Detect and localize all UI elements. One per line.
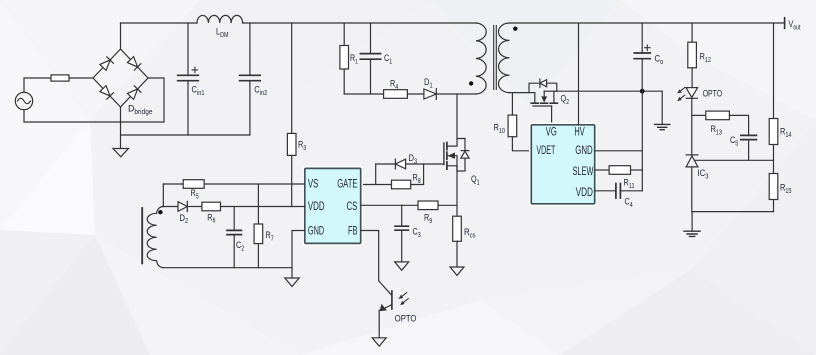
resistor R7 (254, 184, 263, 268)
bridge rectifier D_bridge (93, 49, 148, 107)
resistor R10 (508, 115, 531, 151)
transformer aux winding (147, 207, 163, 268)
fuse F1 (51, 75, 69, 81)
resistor R4 (384, 90, 408, 99)
wire D3 branch left (375, 164, 377, 185)
wire bottom node (692, 211, 774, 213)
shunt regulator IC3 (686, 155, 698, 212)
wire VS line left (163, 183, 183, 185)
node secondary dot (513, 27, 517, 31)
resistor R6 (202, 202, 221, 211)
svg-text:HV: HV (574, 127, 585, 139)
wire output gnd rail (557, 90, 662, 92)
wire C5 to ref line (748, 140, 750, 161)
wire R13 branch (692, 114, 706, 116)
diode D2 (178, 201, 187, 211)
capacitor C_o (634, 23, 650, 91)
wire VDD pin (U2) (595, 190, 616, 192)
wire R4 to D1 (407, 93, 424, 95)
wire Q1 source down (456, 166, 458, 216)
wire C4 to bus (620, 190, 642, 192)
ground (output near Co) (655, 124, 670, 129)
ground (opto) (372, 338, 386, 346)
ground (R_cs) (450, 267, 464, 275)
node junction dot (640, 89, 645, 94)
wire snubber branch (344, 93, 383, 95)
svg-text:OPTO: OPTO (395, 313, 417, 324)
wire HV to rail (578, 23, 580, 125)
transformer T1 secondary winding (499, 23, 510, 93)
wire Q1 drain from transformer (456, 94, 458, 139)
opto transistor (379, 281, 392, 338)
capacitor C2 (227, 207, 241, 268)
svg-text:CS: CS (347, 201, 358, 213)
wire R13 to C5 (729, 115, 748, 135)
IC U1 controller (305, 168, 361, 243)
resistor R12 (688, 23, 697, 88)
ground (C3) (395, 262, 409, 270)
capacitor C1 (360, 23, 380, 94)
wire secondary bottom to Q2 (510, 92, 535, 94)
wire negative rail (121, 134, 250, 136)
svg-text:OPTO: OPTO (703, 88, 722, 99)
resistor R14 (769, 119, 778, 145)
wire D1 to transformer (436, 93, 476, 95)
svg-text:GND: GND (575, 145, 593, 157)
wire U2 right bus (641, 91, 643, 191)
svg-text:GATE: GATE (337, 178, 358, 190)
opto LED arrows (677, 88, 685, 102)
svg-text:VG: VG (546, 127, 557, 139)
wire bridge top to rail (120, 23, 122, 49)
wire VDD line (221, 206, 305, 208)
ground (bridge) (113, 149, 129, 157)
wire R15 to bottom node (773, 200, 775, 212)
svg-text:VDD: VDD (308, 201, 325, 213)
wire GATE pin run (361, 184, 392, 186)
wire gnd rail drop (661, 91, 663, 124)
wire FB to opto (361, 231, 379, 281)
opto LED (686, 88, 698, 155)
wire Q2 gate to VG (551, 106, 553, 125)
wire GND pin (292, 231, 305, 279)
opto light arrows (399, 293, 409, 306)
wire IC3 ref line (695, 159, 774, 161)
wire CS line (361, 204, 418, 206)
wire R10 branch (511, 93, 513, 116)
node primary dot (469, 81, 473, 85)
svg-text:VS: VS (308, 178, 319, 190)
wire aux to D2 (162, 206, 178, 208)
wire R14 to R15 (773, 145, 775, 174)
wire R9 to Q1 source (438, 204, 457, 206)
transistor Q2 (529, 79, 557, 106)
wire AC top (24, 78, 51, 92)
inductor L_DM (197, 15, 243, 23)
wire top rail (primary side) (121, 22, 198, 24)
capacitor C5 (741, 135, 757, 139)
AC source V1 (15, 92, 32, 109)
terminal V_out (784, 18, 786, 29)
wire R14 from rail (773, 23, 775, 119)
capacitor C_in2 (240, 23, 261, 135)
resistor R5 (183, 180, 204, 189)
wire bridge bottom to neg rail and ground (120, 107, 122, 149)
wire R11 to bus (631, 169, 643, 171)
wire to ground 2 (691, 212, 693, 231)
transformer aux core (141, 208, 143, 263)
wire aux bottom rail (164, 267, 293, 269)
svg-text:SLEW: SLEW (573, 166, 594, 178)
resistor R8 (392, 180, 411, 189)
resistor R13 (706, 111, 730, 120)
resistor R_cs (453, 216, 462, 267)
wire D2 to R6 (187, 206, 202, 208)
wire SLEW pin (595, 169, 609, 171)
wire D3 top run to gate (376, 163, 444, 165)
wire GND pin (U2) (595, 150, 643, 152)
svg-text:VDD: VDD (576, 187, 593, 199)
diode D3 (395, 159, 405, 169)
node aux dot (158, 210, 162, 214)
wire AC bottom return (24, 78, 164, 122)
diode D1 (424, 89, 436, 100)
wire R8 to D3 right branch (411, 164, 424, 185)
resistor R1 (340, 23, 349, 94)
ground (IC3) (684, 231, 700, 236)
svg-text:VDET: VDET (536, 145, 555, 157)
capacitor C3 (395, 205, 408, 262)
svg-text:FB: FB (348, 225, 358, 237)
wire VS line right (204, 183, 305, 185)
transformer T1 core (494, 26, 497, 90)
resistor R11 (609, 166, 630, 175)
resistor R15 (769, 174, 778, 200)
resistor R9 (418, 201, 438, 210)
resistor R3 (287, 23, 296, 207)
wire fuse to bridge left (69, 77, 93, 79)
capacitor C4 (616, 184, 621, 199)
svg-text:GND: GND (308, 225, 324, 237)
wire output top rail (510, 22, 785, 24)
IC U2 regulator (531, 125, 594, 204)
wire top rail after L_DM (243, 22, 476, 24)
ground (IC1 GND) (285, 278, 299, 287)
transistor Q1 (444, 139, 469, 172)
capacitor C_in1 (178, 23, 199, 135)
transformer T1 primary winding (476, 23, 486, 94)
wire R5 branch down (162, 184, 164, 207)
